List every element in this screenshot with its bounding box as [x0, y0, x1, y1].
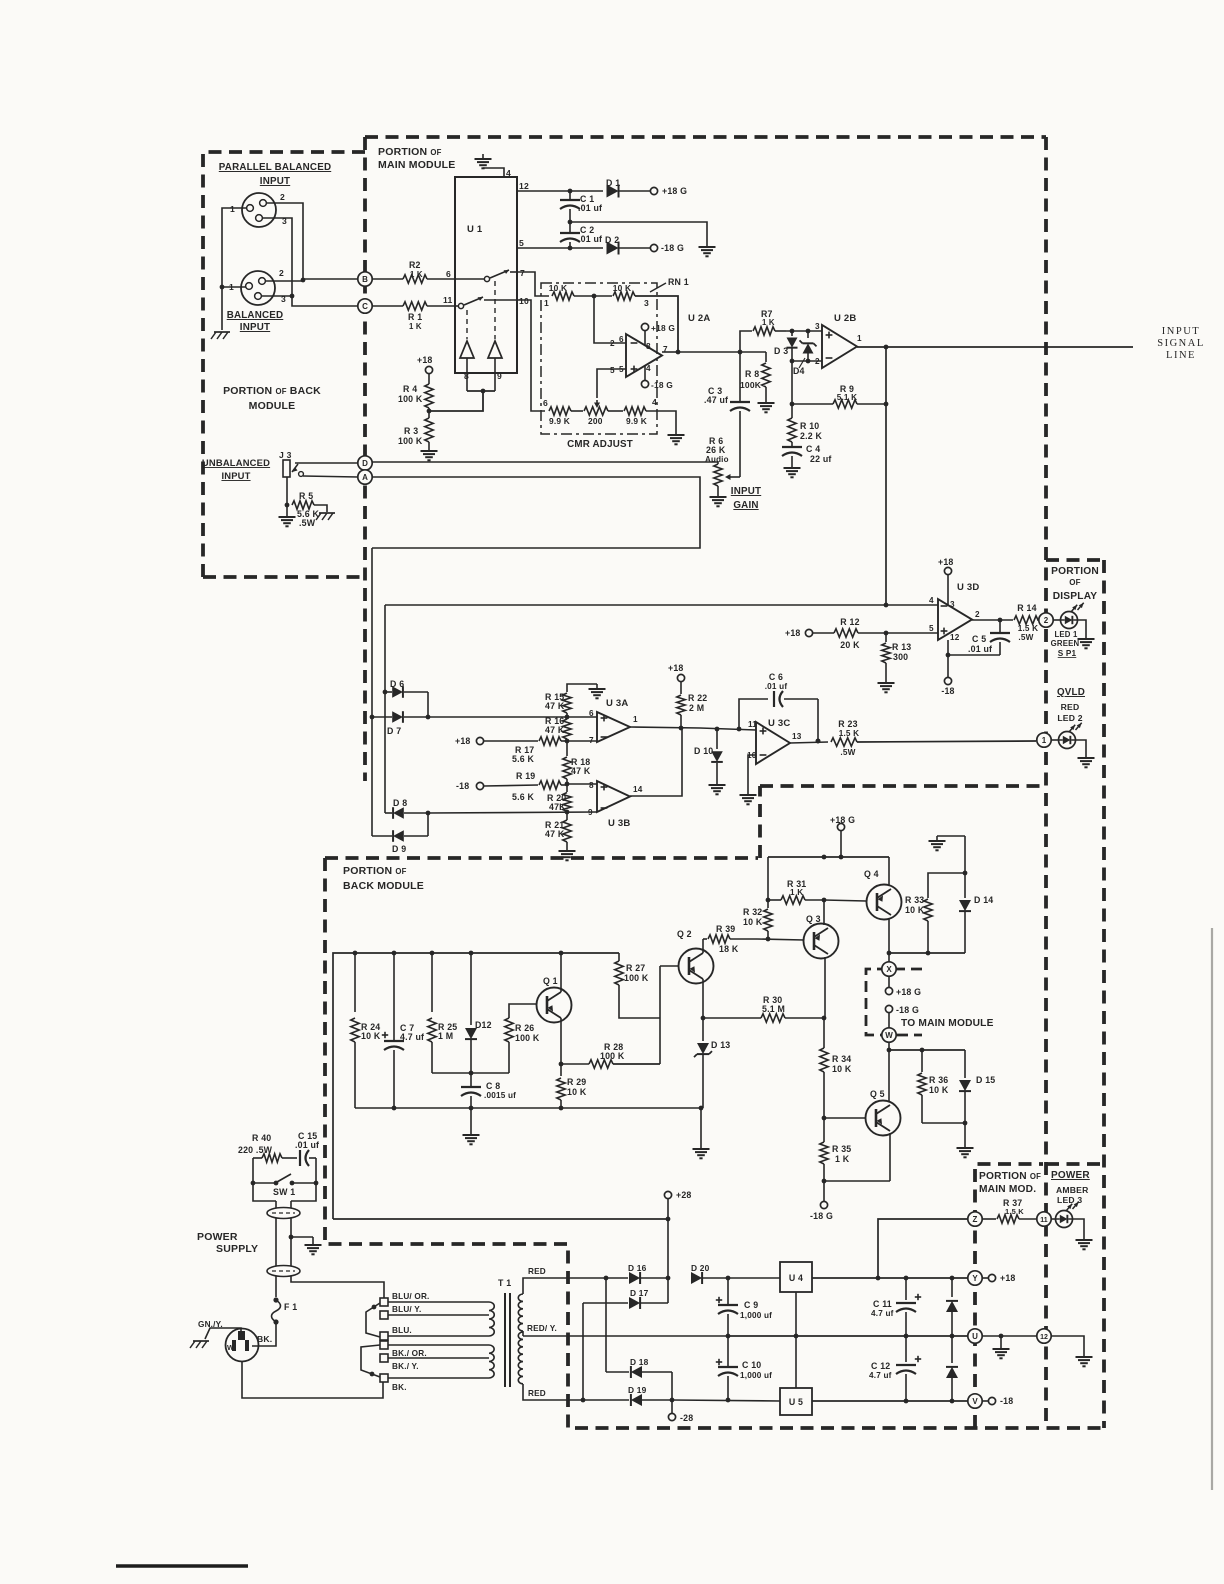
- resistor R29: [560, 1064, 562, 1076]
- svg-text:10 K: 10 K: [361, 1031, 381, 1041]
- wire U4 U5 common: [795, 1292, 797, 1388]
- terminal +28: [664, 1191, 671, 1198]
- svg-text:U 5: U 5: [789, 1397, 803, 1407]
- resistor R14: [1014, 616, 1038, 624]
- module boundary: PORTION OF DISPLAY box: [1046, 558, 1104, 562]
- node U: [968, 1329, 982, 1343]
- resistor R10: [791, 404, 793, 418]
- svg-text:9: 9: [497, 371, 502, 381]
- svg-text:300: 300: [893, 652, 908, 662]
- svg-text:INPUT: INPUT: [731, 486, 761, 497]
- transformer primary winding upper: [489, 1302, 494, 1336]
- svg-text:U 3B: U 3B: [608, 818, 630, 829]
- wire -18 rail out: [812, 1400, 968, 1402]
- cable twist lower: [267, 1266, 300, 1277]
- svg-text:D 2: D 2: [605, 235, 619, 245]
- svg-text:Q 3: Q 3: [806, 914, 821, 924]
- svg-text:Q 1: Q 1: [543, 976, 558, 986]
- svg-text:D 19: D 19: [628, 1385, 647, 1395]
- svg-text:1,000 uf: 1,000 uf: [740, 1371, 772, 1380]
- wire W node down: [888, 1042, 890, 1050]
- svg-text:MODULE: MODULE: [249, 400, 296, 412]
- svg-text:4: 4: [929, 596, 934, 605]
- svg-text:LINE: LINE: [1166, 350, 1196, 361]
- svg-text:1: 1: [633, 715, 638, 724]
- svg-text:18 K: 18 K: [719, 944, 739, 954]
- wire U2B output down: [885, 347, 887, 605]
- svg-text:C 5: C 5: [972, 634, 986, 644]
- wire plug neutral down: [242, 1362, 383, 1398]
- svg-text:20 K: 20 K: [840, 640, 860, 650]
- svg-text:6: 6: [619, 335, 624, 344]
- svg-text:D 1: D 1: [606, 178, 620, 188]
- connector XLR balanced input: [241, 271, 275, 305]
- svg-text:R 36: R 36: [929, 1075, 948, 1085]
- resistor R19: [484, 785, 538, 786]
- wire Q2 base bus: [659, 966, 661, 1064]
- svg-text:+18: +18: [668, 663, 684, 673]
- svg-text:R 14: R 14: [1017, 603, 1036, 613]
- wire secondary RED bottom: [523, 1384, 583, 1400]
- svg-text:+18: +18: [785, 628, 801, 638]
- svg-text:B: B: [362, 275, 368, 284]
- svg-text:R 33: R 33: [905, 895, 924, 905]
- svg-text:INPUT: INPUT: [240, 322, 270, 333]
- svg-text:U 1: U 1: [467, 224, 483, 235]
- svg-text:220 .5W: 220 .5W: [238, 1145, 273, 1155]
- ground U3C: [747, 790, 749, 795]
- svg-text:U 2B: U 2B: [834, 313, 856, 324]
- ground primary shield: [291, 1236, 313, 1238]
- wire U3B output to bus: [630, 728, 682, 796]
- svg-text:D 3: D 3: [774, 346, 788, 356]
- resistor network RN1 box: [541, 283, 657, 434]
- capacitor C12: [905, 1336, 907, 1362]
- LED2 red QVLD: [1051, 739, 1058, 741]
- svg-text:UNBALANCED: UNBALANCED: [202, 457, 270, 468]
- wire primary strap lower: [361, 1345, 380, 1377]
- svg-text:1,000 uf: 1,000 uf: [740, 1311, 772, 1320]
- svg-text:GREEN: GREEN: [1051, 639, 1080, 648]
- resistor R23: [831, 738, 857, 746]
- connector XLR parallel balanced input: [242, 193, 276, 227]
- diode D7: [372, 716, 392, 718]
- svg-text:D 18: D 18: [630, 1357, 649, 1367]
- svg-text:PARALLEL BALANCED: PARALLEL BALANCED: [219, 162, 331, 173]
- svg-text:.0015 uf: .0015 uf: [484, 1091, 516, 1100]
- wire secondary RED top: [523, 1278, 606, 1294]
- svg-text:22 uf: 22 uf: [810, 454, 832, 464]
- resistor R16: [566, 717, 568, 719]
- wire U3A output bus: [630, 727, 756, 730]
- ground LED2: [1085, 753, 1087, 758]
- diode D17: [629, 1297, 640, 1309]
- capacitor C4: [782, 446, 802, 448]
- cable twist upper: [267, 1208, 300, 1219]
- svg-text:4.7 uf: 4.7 uf: [400, 1032, 424, 1042]
- resistor R9: [792, 403, 833, 405]
- svg-text:BLU.: BLU.: [392, 1326, 412, 1335]
- svg-text:GN./Y.: GN./Y.: [198, 1320, 223, 1329]
- svg-text:U: U: [972, 1332, 978, 1341]
- node C: [358, 299, 372, 313]
- wire RN1 pin3 to U2A output: [635, 296, 678, 352]
- svg-text:RED: RED: [528, 1267, 546, 1276]
- svg-text:9.9 K: 9.9 K: [549, 416, 570, 426]
- terminal -18 U3D: [944, 677, 951, 684]
- diode D3: [791, 331, 793, 336]
- terminal +18 output: [982, 1277, 988, 1279]
- svg-text:3: 3: [950, 600, 955, 609]
- resistor R36: [921, 1050, 923, 1072]
- module boundary: main module left edge: [363, 137, 367, 781]
- svg-text:BK.: BK.: [257, 1334, 272, 1344]
- svg-text:100 K: 100 K: [600, 1051, 625, 1061]
- svg-text:6: 6: [446, 269, 451, 279]
- connector AC plug: [226, 1329, 259, 1362]
- ground R3: [428, 446, 430, 451]
- wire R25 D12 R26 sub-rail: [432, 1072, 509, 1074]
- svg-text:LED 2: LED 2: [1057, 713, 1082, 723]
- svg-text:BLU/ OR.: BLU/ OR.: [392, 1292, 430, 1301]
- wire +28 bus to back module: [333, 1218, 668, 1220]
- svg-text:D 17: D 17: [630, 1288, 649, 1298]
- svg-text:10 K: 10 K: [905, 905, 925, 915]
- wire J3 ring to node A: [303, 476, 358, 477]
- resistor R12: [813, 632, 834, 634]
- wire XLR2 pin3: [261, 295, 292, 297]
- svg-text:1: 1: [544, 298, 549, 308]
- diode D14: [964, 836, 966, 898]
- svg-text:10 K: 10 K: [567, 1087, 587, 1097]
- wire secondary RED/Y center: [522, 1331, 524, 1336]
- svg-text:.5W: .5W: [1018, 633, 1033, 642]
- svg-text:PORTION OF: PORTION OF: [979, 1171, 1041, 1182]
- wire C1 C2 junction to ground: [568, 220, 573, 225]
- ground XLR shield: [214, 331, 230, 333]
- svg-text:47 K: 47 K: [545, 701, 565, 711]
- svg-text:CMR ADJUST: CMR ADJUST: [567, 439, 633, 450]
- wire Q5 collector rail: [889, 1049, 965, 1051]
- svg-text:1.5 K: 1.5 K: [1018, 624, 1039, 633]
- ground AC safety: [193, 1340, 209, 1342]
- svg-text:100 K: 100 K: [398, 436, 423, 446]
- capacitor C9: [727, 1278, 729, 1304]
- wire 0V rail: [728, 1335, 968, 1337]
- svg-text:V: V: [972, 1397, 978, 1406]
- resistor R18: [566, 741, 568, 756]
- resistor R13: [885, 633, 887, 642]
- wire R19 node to U3B noninverting: [567, 783, 597, 785]
- wire Q4 output rail: [889, 952, 965, 954]
- svg-text:5: 5: [619, 365, 624, 374]
- terminal BLU: [380, 1332, 388, 1340]
- svg-text:4.7 uf: 4.7 uf: [869, 1371, 892, 1380]
- svg-text:11: 11: [748, 720, 757, 729]
- wire J3 tip to node D: [295, 462, 358, 464]
- svg-text:D 13: D 13: [711, 1040, 730, 1050]
- terminal BLU/OR: [380, 1298, 388, 1306]
- ground D13 rail: [700, 1108, 702, 1144]
- svg-text:2: 2: [815, 357, 820, 366]
- svg-text:SW 1: SW 1: [273, 1187, 295, 1197]
- module boundary: PORTION OF MAIN MOD box: [975, 1164, 1043, 1428]
- node 2: [1039, 613, 1053, 627]
- svg-text:1 M: 1 M: [438, 1031, 453, 1041]
- wire Q2 collector: [702, 939, 704, 953]
- IC U1 box: [455, 177, 517, 373]
- wire A line to comparator feed: [372, 477, 700, 548]
- transformer secondary winding upper: [518, 1294, 523, 1331]
- buffer U1 driver right: [488, 341, 502, 358]
- wire rail to R31 R32: [767, 857, 769, 900]
- resistor R25: [431, 953, 433, 1012]
- wire node 12 ground: [1051, 1336, 1084, 1352]
- svg-text:+18: +18: [1000, 1273, 1016, 1283]
- ground U1 pin4: [482, 154, 484, 159]
- resistor R1: [372, 305, 403, 307]
- svg-text:T 1: T 1: [498, 1278, 511, 1288]
- svg-text:4: 4: [652, 397, 657, 407]
- wire U3C inverting to ground: [748, 755, 756, 790]
- node Y: [968, 1271, 982, 1285]
- node X: [882, 962, 896, 976]
- svg-text:10 K: 10 K: [929, 1085, 949, 1095]
- svg-text:R 32: R 32: [743, 907, 762, 917]
- svg-text:BK./ Y.: BK./ Y.: [392, 1362, 419, 1371]
- wire D17 branch: [583, 1302, 628, 1304]
- svg-text:2: 2: [975, 610, 980, 619]
- node A: [358, 470, 372, 484]
- resistor R4: [428, 374, 430, 384]
- wire plug ground lead: [205, 1328, 241, 1339]
- svg-text:12: 12: [1040, 1334, 1048, 1341]
- svg-text:U 4: U 4: [789, 1273, 803, 1283]
- wire R7 node to R8: [740, 351, 766, 353]
- wire U1 pin12 line: [517, 190, 603, 192]
- wire Q4 base: [824, 900, 866, 901]
- svg-text:10 K: 10 K: [549, 283, 568, 293]
- svg-text:4: 4: [646, 364, 651, 373]
- svg-text:2: 2: [1044, 616, 1049, 625]
- wire +28 to rectifier node: [667, 1219, 669, 1278]
- svg-text:BLU/ Y.: BLU/ Y.: [392, 1305, 421, 1314]
- svg-text:3: 3: [815, 322, 820, 331]
- wire U1 pins 8 9 join: [467, 390, 495, 392]
- wire Z feed: [878, 1219, 967, 1278]
- diode D15: [964, 1050, 966, 1078]
- svg-text:INPUT: INPUT: [1162, 326, 1200, 337]
- svg-text:200: 200: [588, 416, 603, 426]
- op-amp U2A: [626, 334, 662, 377]
- svg-text:7: 7: [520, 268, 525, 278]
- svg-text:+18 G: +18 G: [830, 815, 855, 825]
- wire R4 R3 junction: [428, 408, 430, 418]
- resistor CMR 9.9K right: [608, 410, 623, 412]
- resistor R15: [563, 693, 571, 713]
- wire detector bottom to U3B inverting: [428, 812, 597, 813]
- svg-text:AMBER: AMBER: [1056, 1185, 1089, 1195]
- wire Q2 emitter: [702, 979, 704, 1018]
- svg-text:1: 1: [1042, 736, 1047, 745]
- svg-text:8: 8: [589, 781, 594, 790]
- svg-text:A: A: [362, 473, 368, 482]
- resistor R17: [484, 740, 538, 742]
- wire XLR pin1 bus to ground: [222, 208, 247, 330]
- wire R5 to chassis ground: [314, 505, 327, 512]
- module boundary: POWER box top: [1046, 1162, 1102, 1166]
- resistor CMR 9.9K left: [549, 407, 571, 415]
- node Z: [968, 1212, 982, 1226]
- svg-text:PORTION OF: PORTION OF: [378, 146, 442, 158]
- svg-text:RED/ Y.: RED/ Y.: [527, 1324, 557, 1333]
- svg-text:C 4: C 4: [806, 444, 820, 454]
- wire U1 pin10 to CMR row: [517, 300, 545, 411]
- wire D8 D9 join: [427, 813, 429, 836]
- diode D8: [385, 812, 392, 814]
- svg-text:D 9: D 9: [392, 844, 406, 854]
- svg-text:R 4: R 4: [403, 384, 417, 394]
- resistor R20: [566, 784, 568, 792]
- svg-text:RED: RED: [528, 1389, 546, 1398]
- ground C4: [791, 463, 793, 468]
- wire Q4 collector bottom: [888, 918, 890, 953]
- zener D13: [697, 1043, 709, 1054]
- svg-text:2.2 K: 2.2 K: [800, 431, 822, 441]
- svg-text:-18: -18: [1000, 1396, 1013, 1406]
- wire fuse to plug: [252, 1324, 276, 1346]
- resistor R8: [762, 363, 770, 387]
- svg-text:SUPPLY: SUPPLY: [216, 1243, 258, 1255]
- svg-text:BACK MODULE: BACK MODULE: [343, 880, 424, 892]
- svg-text:C: C: [362, 302, 368, 311]
- ground R6: [717, 492, 719, 497]
- svg-text:.5W: .5W: [299, 518, 316, 528]
- ground D10: [716, 780, 718, 785]
- svg-text:C 6: C 6: [769, 672, 783, 682]
- transformer secondary winding lower: [518, 1332, 523, 1384]
- transistor Q1: [537, 988, 572, 1023]
- svg-text:R 13: R 13: [892, 642, 911, 652]
- switch SW1: [253, 1182, 274, 1184]
- transistor Q4: [867, 885, 902, 920]
- wire primary pair middle: [275, 1218, 277, 1266]
- wire inverting node down to R9: [791, 361, 793, 404]
- svg-text:BK.: BK.: [392, 1383, 407, 1392]
- switch U1 input select lower: [458, 303, 463, 308]
- svg-text:W: W: [227, 1343, 235, 1352]
- svg-text:4: 4: [506, 168, 511, 178]
- ground node 12: [1083, 1352, 1085, 1357]
- svg-text:C 12: C 12: [871, 1361, 890, 1371]
- fuse F1: [273, 1297, 278, 1302]
- svg-text:.01 uf: .01 uf: [295, 1140, 319, 1150]
- svg-text:D 8: D 8: [393, 798, 407, 808]
- ground LED3: [1083, 1235, 1085, 1240]
- svg-text:R 27: R 27: [626, 963, 645, 973]
- svg-text:8: 8: [646, 342, 651, 351]
- resistor R35: [823, 1118, 825, 1142]
- capacitor C10: [727, 1336, 729, 1366]
- wire primary pair upper: [275, 1201, 277, 1208]
- resistor R31: [781, 896, 805, 904]
- svg-text:1 K: 1 K: [410, 270, 423, 279]
- diode rail clamp upper: [951, 1278, 953, 1297]
- svg-text:X: X: [886, 965, 892, 974]
- wire to fuse: [275, 1276, 277, 1297]
- svg-text:DISPLAY: DISPLAY: [1053, 591, 1098, 602]
- node B: [358, 272, 372, 286]
- svg-text:.01 uf: .01 uf: [968, 644, 992, 654]
- svg-text:GAIN: GAIN: [733, 500, 758, 511]
- resistor R24: [354, 953, 356, 1012]
- svg-text:MAIN MOD.: MAIN MOD.: [979, 1184, 1036, 1195]
- diode D2: [607, 242, 619, 255]
- svg-text:2 M: 2 M: [689, 703, 704, 713]
- transistor Q3: [804, 924, 839, 959]
- svg-text:R 35: R 35: [832, 1144, 851, 1154]
- node V: [968, 1394, 982, 1408]
- ground R13: [885, 678, 887, 683]
- resistor R40: [253, 1157, 262, 1159]
- terminal -18G to main module: [885, 1005, 892, 1012]
- potentiometer R6 input gain: [717, 462, 719, 464]
- terminal +18G to main module: [888, 976, 890, 987]
- svg-text:.01 uf: .01 uf: [765, 682, 788, 691]
- wire J3 sleeve down: [286, 477, 288, 505]
- svg-text:R 10: R 10: [800, 421, 819, 431]
- svg-text:C 10: C 10: [742, 1360, 761, 1370]
- wire comparator feed to U3D inverting: [385, 604, 938, 606]
- wire U2A output node: [662, 351, 678, 353]
- transistor Q5: [866, 1101, 901, 1136]
- terminal +18G top: [650, 187, 657, 194]
- terminal -18 output: [982, 1400, 988, 1402]
- wire U3D pin12 return: [947, 640, 949, 677]
- svg-text:-18 G: -18 G: [651, 380, 673, 390]
- module boundary: comparator block bottom: [325, 856, 758, 860]
- diode D18: [631, 1366, 642, 1378]
- ground 0V rail: [1000, 1336, 1002, 1344]
- terminal +18G rail: [837, 823, 844, 830]
- svg-text:5.6 K: 5.6 K: [512, 754, 534, 764]
- svg-text:5.1 M: 5.1 M: [762, 1004, 785, 1014]
- svg-text:C 9: C 9: [744, 1300, 758, 1310]
- terminal +18 R12: [805, 629, 812, 636]
- svg-text:D 7: D 7: [387, 726, 401, 736]
- terminal -18G top: [650, 244, 657, 251]
- module boundary: TO MAIN MODULE bracket: [866, 969, 922, 1035]
- svg-text:12: 12: [950, 633, 960, 642]
- svg-text:R 12: R 12: [840, 617, 859, 627]
- svg-text:-18 G: -18 G: [896, 1005, 919, 1015]
- svg-text:RED: RED: [1061, 702, 1080, 712]
- wire U3D noninverting: [886, 632, 938, 634]
- svg-text:POWER: POWER: [197, 1231, 238, 1243]
- wire back module bottom rail: [355, 1107, 701, 1109]
- op-amp U2B: [822, 325, 857, 368]
- svg-text:6: 6: [543, 398, 548, 408]
- svg-text:LED 1: LED 1: [1054, 630, 1078, 639]
- node 12: [1037, 1329, 1051, 1343]
- svg-text:R 19: R 19: [516, 771, 535, 781]
- ground D15: [964, 1143, 966, 1148]
- svg-text:R 34: R 34: [832, 1054, 851, 1064]
- svg-text:.47 uf: .47 uf: [704, 395, 728, 405]
- svg-text:5: 5: [929, 624, 934, 633]
- svg-text:-18 G: -18 G: [661, 243, 684, 253]
- wire LED2 ground: [1075, 740, 1086, 753]
